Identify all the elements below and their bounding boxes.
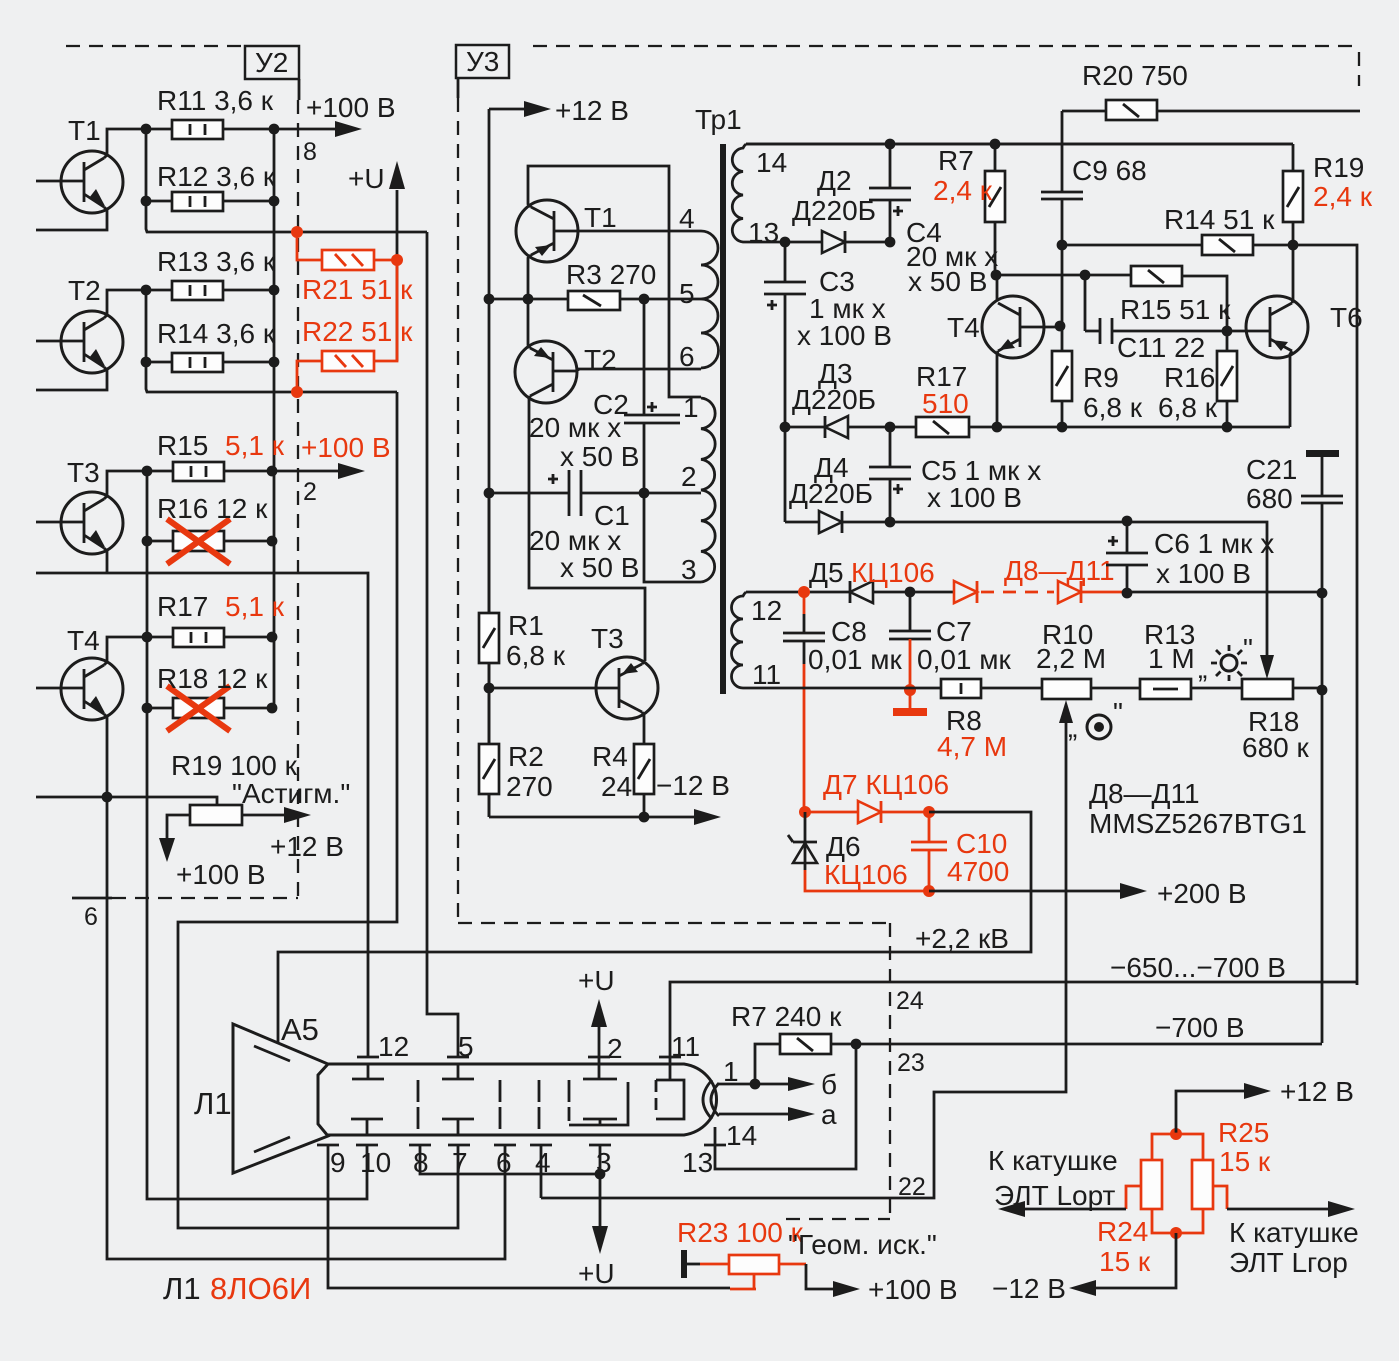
- wire T1 emitter row: [36, 207, 107, 230]
- capacitor C5 1uF x100V: [869, 427, 1041, 521]
- diode D4 D220B: [785, 452, 890, 533]
- module boundary U2 bottom edge: [112, 897, 298, 899]
- transistor T4 (U3): [947, 296, 1060, 358]
- svg-text:C9 68: C9 68: [1072, 155, 1147, 186]
- wire D6 anode to +200V rail (red): [805, 870, 929, 891]
- svg-text:R25: R25: [1218, 1117, 1269, 1148]
- node R14 right: [269, 357, 280, 368]
- capacitor C4 20uF x50V: [869, 144, 998, 297]
- svg-text:R15: R15: [157, 430, 208, 461]
- module boundary U3 top edge: [533, 45, 1359, 47]
- node C1 left rail: [484, 488, 495, 499]
- svg-text:х 100 В: х 100 В: [927, 482, 1022, 513]
- resistor R1 6,8 k: [479, 610, 566, 671]
- svg-text:КЦ106: КЦ106: [851, 557, 935, 588]
- CRT tube L1 funnel: [194, 1012, 328, 1173]
- capacitor C8 0,01uF: [783, 592, 903, 812]
- wire CRT pin 13 to R7 node: [715, 1044, 856, 1169]
- node T4 base: [1055, 321, 1066, 332]
- wire -12V output (bottom right): [992, 1233, 1176, 1304]
- node T1-T2 column: [523, 294, 534, 305]
- wire T2 row down via +U path to CRT pin 7: [178, 392, 458, 1228]
- wire T6 collector: [1292, 245, 1293, 303]
- wire R19 left lead to +100V down arrow: [159, 815, 266, 890]
- CRT pin tick 2: [588, 1033, 623, 1064]
- node R9 rail: [1057, 422, 1068, 433]
- svg-text:8: 8: [303, 138, 317, 166]
- node R16 left: [142, 536, 153, 547]
- wire T3/T4 output column: [146, 471, 149, 708]
- svg-text:ЭЛТ Lорт: ЭЛТ Lорт: [994, 1180, 1116, 1211]
- svg-text:5,1 к: 5,1 к: [225, 591, 285, 622]
- svg-text:х 50 В: х 50 В: [560, 441, 639, 472]
- CRT electrode pin 3 cage: [569, 1080, 628, 1125]
- svg-text:Т6: Т6: [1330, 302, 1363, 333]
- wire T1 output column to row: [146, 129, 427, 232]
- CRT pin tick 6: [494, 1145, 516, 1178]
- svg-text:15 к: 15 к: [1219, 1146, 1271, 1177]
- svg-text:К катушке: К катушке: [988, 1145, 1118, 1176]
- svg-text:R16 12 к: R16 12 к: [157, 493, 268, 524]
- CRT screen arcs at face: [703, 1080, 719, 1119]
- node R18 right: [267, 703, 278, 714]
- node T4 emitter junction: [102, 792, 113, 803]
- wire C5 bottom row to R18 wiper branch: [890, 522, 1267, 655]
- resistor R19 2,4 k (U3): [1283, 152, 1373, 222]
- resistor R3 270: [566, 259, 656, 310]
- svg-text:Д2: Д2: [817, 165, 852, 196]
- diode D5 KC106: [809, 557, 954, 603]
- node D3 left / C3 bottom: [780, 422, 791, 433]
- CRT pin tick 8: [409, 1145, 431, 1178]
- diode D2 D220B: [792, 165, 890, 253]
- node R24 R25 top (red): [1170, 1128, 1182, 1140]
- resistor R21 51 k (red): [297, 232, 413, 305]
- node D2 cathode / C4: [885, 237, 896, 248]
- svg-text:680: 680: [1246, 483, 1293, 514]
- svg-text:R16: R16: [1164, 362, 1215, 393]
- svg-text:4,7 М: 4,7 М: [937, 731, 1007, 762]
- svg-text:0,01 мк: 0,01 мк: [808, 644, 903, 675]
- wiper of R10 with arrow to contact 22: [541, 700, 1073, 1198]
- svg-text:R14 51 к: R14 51 к: [1164, 204, 1275, 235]
- resistor R14 51 k: [1164, 204, 1275, 255]
- resistor R15 5,1 k: [157, 430, 285, 481]
- svg-text:2: 2: [607, 1033, 623, 1064]
- wire T2 emitter down to T3 collector: [529, 396, 645, 661]
- resistor R11 3,6 k: [157, 85, 274, 139]
- transistor T2 (U2): [36, 275, 123, 373]
- svg-text:15 к: 15 к: [1099, 1246, 1151, 1277]
- svg-text:0,01 мк: 0,01 мк: [917, 644, 1012, 675]
- svg-text:23: 23: [897, 1049, 925, 1077]
- svg-text:2: 2: [303, 478, 317, 506]
- wire T2 output column to row: [146, 290, 397, 392]
- transistor T6: [1227, 296, 1363, 358]
- svg-text:24: 24: [896, 987, 924, 1015]
- wire T2 collector to R13 row: [104, 290, 146, 318]
- svg-text:11: 11: [752, 659, 781, 690]
- wire C21 column down to -700V row: [1321, 593, 1324, 1043]
- node R7 right: [851, 1039, 862, 1050]
- coil output Lort (left arrow): [988, 1145, 1141, 1217]
- svg-text:„: „: [1198, 653, 1207, 684]
- wire R7 right to -700V node: [831, 1043, 890, 1046]
- resistor R9 6,8 k: [1052, 351, 1143, 423]
- svg-text:+100 В: +100 В: [301, 432, 391, 463]
- module boundary U2 dashed top edge: [66, 45, 245, 47]
- wire -12V bottom row: [489, 770, 730, 825]
- svg-text:R23 100 к: R23 100 к: [677, 1217, 804, 1248]
- svg-text:„: „: [1068, 712, 1077, 743]
- wire T1 collector loop to transformer pin 1: [528, 166, 701, 397]
- resistor R24 15 k (red): [1097, 1134, 1203, 1277]
- node R1 bottom / T3 base: [484, 683, 495, 694]
- transformer Tr1 primary winding 4-5-6: [679, 203, 719, 372]
- wire T4 collector to R17 row: [104, 637, 147, 665]
- resistor R13 1 M: [1140, 619, 1195, 699]
- node C9 bottom R14 left: [1057, 240, 1068, 251]
- svg-text:": ": [1113, 697, 1123, 728]
- svg-text:R18 12 к: R18 12 к: [157, 663, 268, 694]
- node R18 right: [1317, 685, 1328, 696]
- svg-text:С10: С10: [956, 828, 1007, 859]
- wire R8 to R10: [981, 687, 1042, 690]
- node C6 bottom: [1122, 588, 1133, 599]
- svg-text:R13 3,6 к: R13 3,6 к: [157, 246, 276, 277]
- resistor R8 4,7 M: [937, 679, 1007, 762]
- svg-text:Т2: Т2: [68, 275, 101, 306]
- svg-text:+U: +U: [578, 965, 615, 996]
- svg-text:R15 51 к: R15 51 к: [1120, 294, 1231, 325]
- svg-text:MMSZ5267BTG1: MMSZ5267BTG1: [1089, 808, 1307, 839]
- diode D3 D220B: [785, 358, 890, 438]
- svg-text:R20 750: R20 750: [1082, 60, 1188, 91]
- svg-text:С6 1 мк х: С6 1 мк х: [1154, 528, 1274, 559]
- svg-text:−700 В: −700 В: [1155, 1012, 1245, 1043]
- node pin 1: [750, 1079, 761, 1090]
- CRT electrode pin 7: [442, 1119, 474, 1135]
- wire R16 column: [1226, 331, 1229, 427]
- potentiometer R23 100 k (red): [677, 1217, 937, 1278]
- svg-text:Л1: Л1: [163, 1271, 201, 1306]
- svg-text:Т4: Т4: [67, 625, 100, 656]
- svg-text:14: 14: [726, 1120, 757, 1151]
- resistor R22 51 k (red): [297, 260, 413, 392]
- svg-text:R14 3,6 к: R14 3,6 к: [157, 318, 276, 349]
- resistor R7 240 k: [731, 1001, 842, 1054]
- capacitor C6 1uF x100V: [1106, 521, 1274, 593]
- wire T2 emitter row: [36, 367, 107, 390]
- svg-text:20 мк х: 20 мк х: [529, 412, 621, 443]
- node R16 rail: [1222, 422, 1233, 433]
- svg-text:12: 12: [751, 595, 782, 626]
- wire R17 row: [147, 636, 272, 639]
- wire C2 column to transformer pin 2: [644, 492, 701, 495]
- transistor T1 (U3): [516, 200, 617, 262]
- capacitor C3 1uF x100V: [764, 242, 892, 427]
- resistor R13 3,6 k: [157, 246, 276, 300]
- svg-text:680 к: 680 к: [1242, 732, 1309, 763]
- svg-text:4700: 4700: [947, 856, 1009, 887]
- svg-text:"Геом. иск.": "Геом. иск.": [788, 1229, 937, 1260]
- wire R20 row: [1062, 110, 1360, 113]
- diode D8 (red): [954, 555, 1115, 603]
- wire R16 row: [147, 540, 272, 543]
- svg-text:8ЛО6И: 8ЛО6И: [210, 1271, 311, 1306]
- zener reference label D8-D11: [1089, 778, 1307, 839]
- svg-text:х 100 В: х 100 В: [797, 320, 892, 351]
- svg-text:КЦ106: КЦ106: [824, 859, 908, 890]
- transistor T2 (U3): [515, 341, 617, 403]
- wiper of R23 (red): [730, 1274, 756, 1289]
- CRT electrode pin 2: [583, 1064, 617, 1079]
- svg-text:R19 100 к: R19 100 к: [171, 750, 298, 781]
- wire CRT pin 1: [719, 1056, 755, 1087]
- resistor R17 5,1 k: [157, 591, 285, 647]
- wire CRT pin 9 to R23 wiper row: [328, 1145, 730, 1288]
- CRT pin tick 3: [589, 1145, 612, 1178]
- svg-text:Д7 КЦ106: Д7 КЦ106: [823, 769, 949, 800]
- wire T4 collector row to R15: [995, 275, 1227, 331]
- ground symbol (red) under C7: [893, 690, 927, 716]
- wire T1 base to transformer pin 4: [578, 230, 701, 233]
- svg-text:+100 В: +100 В: [868, 1274, 958, 1305]
- svg-text:+100 В: +100 В: [306, 92, 396, 123]
- svg-text:х 50 В: х 50 В: [908, 266, 987, 297]
- wire T3 emitter row to CRT pin 12: [36, 548, 368, 1057]
- svg-text:+100 В: +100 В: [176, 859, 266, 890]
- capacitor C11 22: [1085, 275, 1227, 363]
- svg-text:6: 6: [679, 341, 695, 372]
- wire R18 row: [147, 707, 272, 710]
- wire R23 right to +100V arrow: [806, 1264, 958, 1305]
- node C7 bottom on cathode rail (red): [904, 684, 916, 696]
- wire T2 base to transformer pin 6: [578, 369, 701, 371]
- node T6 base / R16 top: [1222, 326, 1233, 337]
- wire T3 emitter to R4: [642, 712, 644, 744]
- CRT pin tick 4: [530, 1145, 552, 1178]
- wire R3 row to transformer pin 5: [489, 298, 701, 301]
- CRT label L1 8LO6I: [163, 1271, 311, 1306]
- wire C9 column through T4 base to R9: [1061, 245, 1064, 351]
- focus symbol: [1068, 697, 1123, 743]
- wire T1 row down to CRT pin 5: [427, 232, 458, 1057]
- node R15 left: [142, 466, 153, 477]
- node R14 right / R19 / T6 collector: [1288, 240, 1299, 251]
- node rail R7 top: [990, 139, 1001, 150]
- diode D6 KC106 zener: [788, 812, 908, 890]
- svg-text:6,8 к: 6,8 к: [506, 640, 566, 671]
- wire +12V rail (U3): [488, 109, 491, 817]
- svg-text:Д8—Д11: Д8—Д11: [1089, 778, 1200, 809]
- wire R14 row: [146, 361, 274, 364]
- CRT electrode pin 6 (dashed grid): [499, 1080, 502, 1129]
- CRT pin tick 9: [317, 1145, 346, 1178]
- wire +2,2 kV loop: [890, 812, 1031, 954]
- svg-text:б: б: [821, 1069, 837, 1100]
- resistor R16 12 k (crossed out): [157, 493, 268, 564]
- svg-text:11: 11: [671, 1031, 700, 1062]
- node row to C21 column: [1317, 588, 1328, 599]
- wire CRT pin 8 to pin 3 junction: [420, 1145, 600, 1174]
- svg-text:+12 В: +12 В: [1280, 1076, 1354, 1107]
- wire -700V row: [890, 1012, 1322, 1044]
- svg-text:2,2 М: 2,2 М: [1036, 643, 1106, 674]
- svg-text:R7: R7: [938, 145, 974, 176]
- wire R15 row with +100V contact 2: [147, 432, 391, 506]
- potentiometer R19 100 k astigmatism: [171, 750, 350, 825]
- transistor T1 (U2): [36, 115, 123, 213]
- wire CRT pin 3 to +U down arrow: [578, 1145, 615, 1289]
- wire dashed link D8-D11 (red): [981, 591, 1054, 594]
- node R4 bottom: [639, 812, 650, 823]
- node R15 right: [267, 466, 278, 477]
- power +12V arrow (U3): [489, 95, 629, 126]
- node R3 right: [639, 294, 650, 305]
- svg-text:270: 270: [506, 771, 553, 802]
- svg-text:9: 9: [330, 1147, 346, 1178]
- CRT electrode pin 4 (dashed grid): [538, 1080, 541, 1129]
- wire C3 column to D4: [784, 427, 787, 522]
- svg-text:R4: R4: [592, 741, 628, 772]
- CRT tube L1 neck envelope: [327, 1064, 717, 1135]
- svg-text:Т4: Т4: [947, 312, 980, 343]
- CRT pin tick 7: [448, 1145, 470, 1178]
- transformer Tr1 primary winding 1-2-3: [681, 392, 715, 585]
- svg-text:1 М: 1 М: [1148, 643, 1195, 674]
- node R24 R25 bottom (red): [1170, 1227, 1182, 1239]
- transformer Tr1 core: [695, 104, 742, 694]
- module boundary U3 lower right edge: [786, 923, 890, 1219]
- diode D7 KC106 (red): [805, 769, 949, 823]
- svg-text:R19: R19: [1313, 152, 1364, 183]
- svg-text:1: 1: [723, 1056, 739, 1087]
- svg-text:13: 13: [682, 1147, 713, 1178]
- wire winding 11 row to R8: [746, 687, 941, 690]
- svg-text:510: 510: [922, 388, 969, 419]
- node R21 left on T1 row: [291, 226, 303, 238]
- node R17 right / T4 emitter: [992, 422, 1003, 433]
- wire R17 row to T4 emitter rail: [890, 426, 1290, 429]
- node R16 right: [267, 536, 278, 547]
- node pin13 C3 top: [780, 237, 791, 248]
- resistor R18 12 k (crossed out): [157, 663, 268, 731]
- wire winding 12 to D5: [746, 591, 849, 594]
- node D3 right / C4 column: [885, 422, 896, 433]
- transistor T3 (U2): [36, 457, 123, 554]
- svg-text:Л1: Л1: [194, 1086, 232, 1121]
- resistor R17 510 (U3): [916, 361, 969, 437]
- wire T2 collector from R3 node: [528, 299, 530, 348]
- resistor R16 6,8 k (U3): [1158, 351, 1237, 423]
- wire top rail from winding 14: [746, 143, 1293, 146]
- CRT electrode pin 10: [351, 1119, 383, 1135]
- wire C2 column to transformer pin 3: [644, 493, 701, 582]
- node R11 right: [269, 124, 280, 135]
- svg-text:+2,2 кВ: +2,2 кВ: [915, 923, 1009, 954]
- contact 22 label: [898, 1173, 926, 1201]
- svg-text:R2: R2: [508, 741, 544, 772]
- resistor R15 51 k (U3): [1120, 266, 1231, 325]
- svg-text:R12 3,6 к: R12 3,6 к: [157, 161, 276, 192]
- svg-text:+12 В: +12 В: [555, 95, 629, 126]
- svg-text:Т3: Т3: [591, 623, 624, 654]
- resistor R4 24: [592, 741, 654, 802]
- node winding 12 / C8 top (red): [798, 586, 810, 598]
- svg-text:Д220Б: Д220Б: [792, 195, 876, 226]
- module boundary U3 left edge: [457, 78, 460, 923]
- wire T3 collector to R15 row: [104, 471, 147, 499]
- coil output Lgor (right arrow): [1213, 1186, 1359, 1278]
- CRT pin tick 11: [659, 1031, 700, 1062]
- svg-text:14: 14: [756, 147, 787, 178]
- svg-text:С21: С21: [1246, 454, 1297, 485]
- funnel screen marks: [254, 1046, 290, 1152]
- svg-text:У3: У3: [466, 46, 499, 77]
- arrow b output: [755, 1069, 837, 1100]
- module label box U2: [245, 46, 299, 79]
- svg-text:R3 270: R3 270: [566, 259, 656, 290]
- svg-text:5: 5: [679, 278, 695, 309]
- CRT pin tick 13: [682, 1145, 726, 1178]
- wire R14 row: [1062, 245, 1357, 985]
- node R14 left: [141, 357, 152, 368]
- svg-text:+200 В: +200 В: [1157, 878, 1247, 909]
- wire pin 1 up to R7 240k: [755, 1044, 780, 1084]
- wire R9 bottom to rail: [1061, 401, 1064, 427]
- svg-text:А5: А5: [281, 1012, 319, 1047]
- svg-text:24: 24: [601, 771, 632, 802]
- wire D11 cathode to C6 bottom row: [1122, 591, 1322, 594]
- svg-text:С8: С8: [831, 616, 867, 647]
- wire T4 emitter down to CRT pin 6: [107, 797, 505, 1259]
- svg-text:6,8 к: 6,8 к: [1158, 392, 1218, 423]
- module boundary U3 bottom edge: [458, 922, 890, 924]
- svg-text:Т1: Т1: [68, 115, 101, 146]
- svg-text:R1: R1: [508, 610, 544, 641]
- wire CRT pin 2 +U arrow: [578, 965, 615, 1064]
- node rail R3: [484, 294, 495, 305]
- svg-text:1: 1: [683, 392, 699, 423]
- transistor T4 (U2): [36, 625, 123, 720]
- svg-text:К катушке: К катушке: [1229, 1217, 1359, 1248]
- svg-text:−12 В: −12 В: [992, 1273, 1066, 1304]
- wire R7 column / T4 collector: [995, 144, 997, 301]
- node R12 left: [141, 196, 152, 207]
- wire R19 column from top rail: [746, 144, 1293, 245]
- wire R18 right to C21 column: [1293, 687, 1322, 690]
- svg-text:Д220Б: Д220Б: [789, 478, 873, 509]
- node C10 bottom (red): [923, 885, 935, 897]
- wire T1 emitter to R3 node: [528, 255, 531, 299]
- capacitor C21 680 with chassis plate: [1246, 450, 1343, 593]
- capacitor C9 68: [1041, 111, 1147, 245]
- contact 24 label: [896, 987, 924, 1015]
- node R15 left / C11 branch: [1080, 270, 1091, 281]
- resistor R20 750: [1082, 60, 1188, 120]
- wire C8 column to D7 (red): [799, 806, 811, 818]
- module boundary U2 right edge: [298, 79, 299, 898]
- node C4 top on rail: [885, 139, 896, 150]
- resistor R12 3,6 k: [157, 161, 276, 211]
- wire +2,2 kV to CRT anode A5: [278, 952, 890, 1043]
- svg-text:Т1: Т1: [584, 202, 617, 233]
- transformer Tr1 secondary winding 12-11: [732, 592, 783, 690]
- wire +100V rail column U2: [273, 129, 276, 708]
- svg-text:R9: R9: [1083, 362, 1119, 393]
- svg-text:2,4 к: 2,4 к: [1313, 181, 1373, 212]
